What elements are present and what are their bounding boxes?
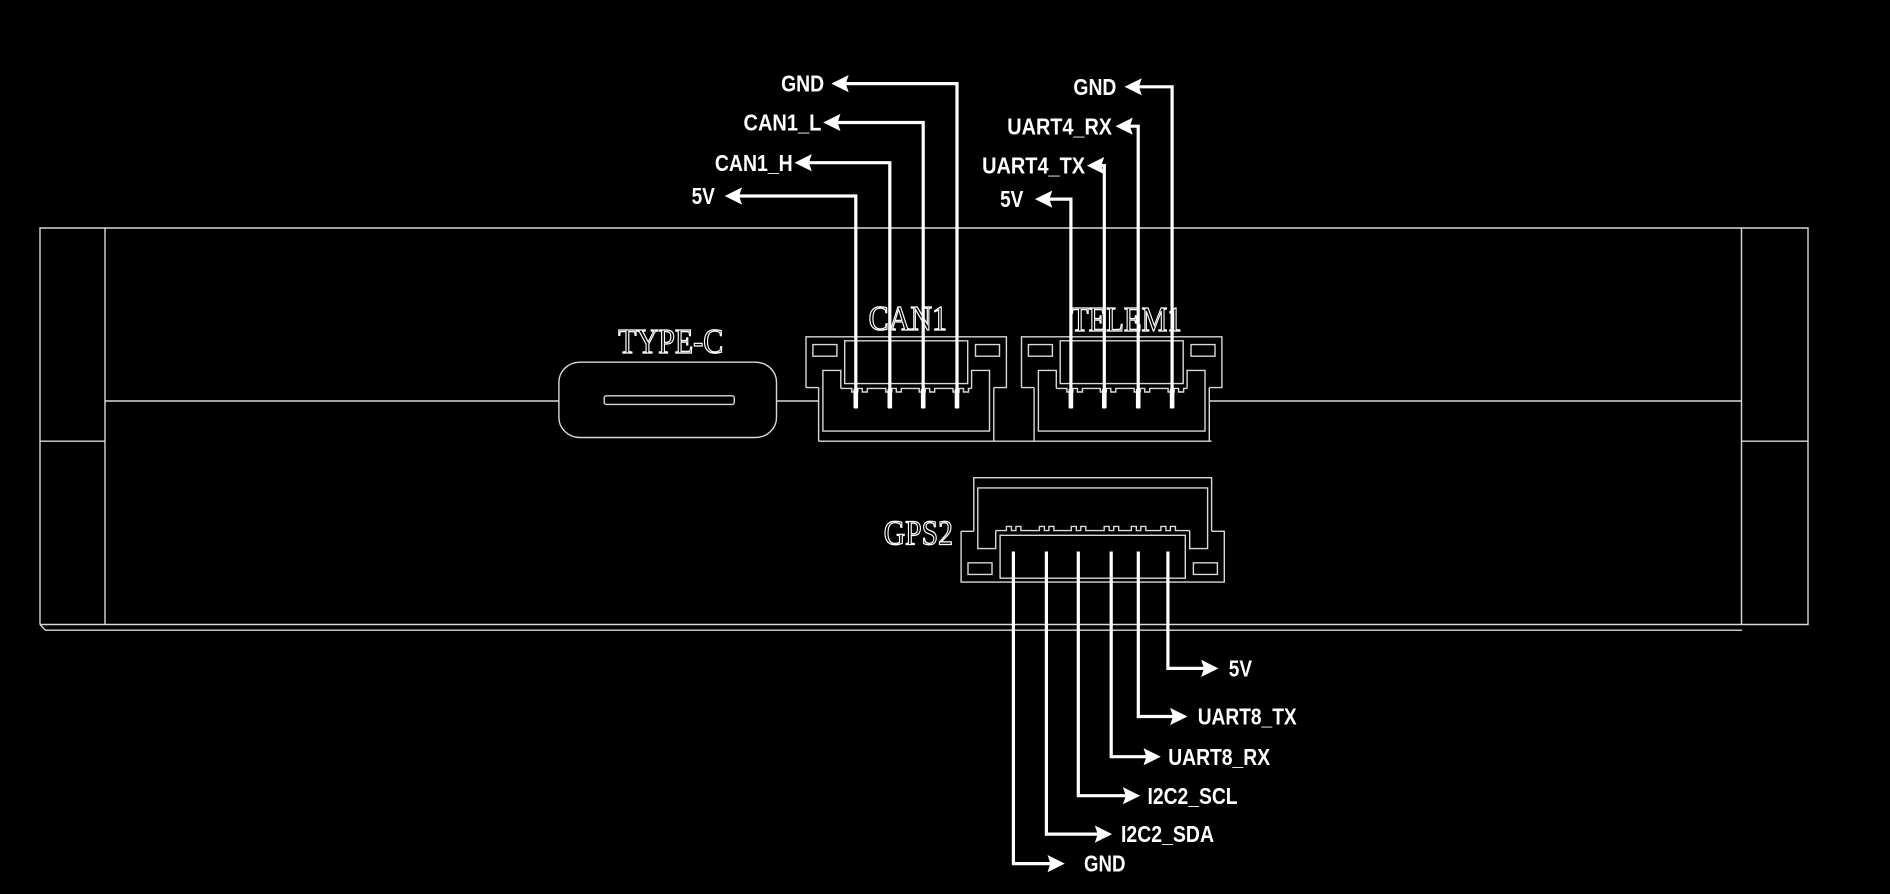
arrow CAN1 CAN1_H: [795, 154, 812, 171]
svg-text:GND: GND: [1084, 851, 1125, 877]
arrow CAN1 CAN1_L: [823, 114, 840, 131]
connector TELEM1 tongue box: [1060, 341, 1183, 384]
svg-text:CAN1_H: CAN1_H: [715, 150, 793, 176]
connector CAN1 recess walls: [819, 388, 994, 442]
svg-text:TELEM1: TELEM1: [1071, 301, 1182, 339]
svg-text:5V: 5V: [1229, 656, 1253, 682]
connector GPS2 outer housing: [961, 531, 1224, 582]
wire TELEM1 pin4 GND: [1139, 87, 1172, 409]
arrow TELEM1 UART4_RX: [1116, 118, 1133, 135]
wire GPS2 pin1 GND: [1013, 552, 1050, 864]
connector TELEM1 lower housing: [1038, 370, 1205, 431]
connector TELEM1 mating face teeth: [1056, 388, 1187, 392]
connector CAN1 mating face teeth: [841, 388, 972, 392]
svg-text:TYPE-C: TYPE-C: [618, 323, 723, 361]
connector CAN1 pin contacts: [854, 389, 960, 409]
svg-text:UART4_TX: UART4_TX: [982, 153, 1085, 179]
svg-text:I2C2_SDA: I2C2_SDA: [1121, 821, 1214, 847]
wire GPS2 pin3 I2C2_SCL: [1078, 552, 1126, 796]
arrow GPS2 I2C2_SCL: [1123, 787, 1140, 804]
connector GPS2 upper housing: [978, 488, 1208, 549]
svg-text:I2C2_SCL: I2C2_SCL: [1148, 783, 1238, 809]
svg-text:5V: 5V: [1000, 186, 1024, 212]
arrow GPS2 5V: [1201, 660, 1218, 677]
svg-text:UART8_RX: UART8_RX: [1168, 744, 1270, 770]
connector CAN1 outer housing: [806, 337, 1006, 388]
connector GPS2 recess walls and top line: [974, 478, 1212, 532]
connector GPS2 mating face teeth: [996, 526, 1190, 530]
connector TELEM1 outer housing: [1022, 337, 1222, 388]
svg-text:5V: 5V: [692, 183, 716, 209]
wire TELEM1 pin3 UART4_RX: [1130, 126, 1138, 408]
connector GPS2 left ear hole: [968, 563, 992, 575]
svg-text:UART4_RX: UART4_RX: [1007, 113, 1112, 139]
connector GPS2 right ear hole: [1193, 563, 1217, 575]
wire CAN1 pin2 CAN1_H: [809, 163, 890, 409]
wire CAN1 pin1 5V: [739, 196, 856, 409]
arrow TELEM1 UART4_TX: [1087, 157, 1104, 174]
connector TELEM1 pin contacts: [1069, 389, 1175, 409]
arrow GPS2 UART8_RX: [1144, 748, 1161, 765]
USB port TYPE-C: [559, 362, 777, 437]
connector recess bottom line: [819, 440, 1212, 442]
connector TELEM1 left ear hole: [1028, 345, 1052, 357]
connector CAN1 left ear hole: [813, 345, 837, 357]
connector TELEM1 recess walls: [1034, 388, 1209, 442]
connector GPS2 tongue box: [1000, 535, 1185, 578]
svg-text:GND: GND: [1073, 74, 1116, 100]
wire CAN1 pin3 CAN1_L: [838, 123, 924, 409]
svg-text:GND: GND: [781, 71, 824, 97]
wire TELEM1 pin2 UART4_TX: [1101, 166, 1104, 409]
arrow GPS2 GND: [1048, 855, 1065, 872]
arrow GPS2 UART8_TX: [1170, 708, 1187, 725]
connector CAN1 right ear hole: [976, 345, 1000, 357]
case seam line: [105, 400, 1742, 402]
wire GPS2 pin4 UART8_RX: [1111, 552, 1146, 757]
device body outline: [40, 228, 1808, 625]
connector CAN1 tongue box: [845, 341, 968, 384]
base plate line: [40, 625, 1742, 631]
wire GPS2 pin5 UART8_TX: [1138, 552, 1173, 717]
wire TELEM1 pin1 5V: [1049, 199, 1071, 408]
TYPE-C slot: [604, 396, 734, 405]
arrow CAN1 5V: [725, 187, 742, 204]
connector TELEM1 right ear hole: [1191, 345, 1215, 357]
arrow TELEM1 GND: [1125, 78, 1142, 95]
svg-text:CAN1: CAN1: [869, 300, 948, 338]
arrow CAN1 GND: [831, 75, 848, 92]
arrow GPS2 I2C2_SDA: [1095, 826, 1112, 843]
svg-text:UART8_TX: UART8_TX: [1198, 704, 1297, 730]
arrow TELEM1 5V: [1035, 191, 1052, 208]
connector CAN1 lower housing: [823, 370, 990, 431]
svg-text:GPS2: GPS2: [884, 515, 953, 553]
svg-text:CAN1_L: CAN1_L: [744, 110, 822, 136]
wire GPS2 pin6 5V: [1168, 552, 1204, 669]
left end cap: [40, 228, 105, 625]
right end cap: [1742, 228, 1809, 625]
wire CAN1 pin4 GND: [846, 84, 957, 409]
wire GPS2 pin2 I2C2_SDA: [1046, 552, 1097, 835]
